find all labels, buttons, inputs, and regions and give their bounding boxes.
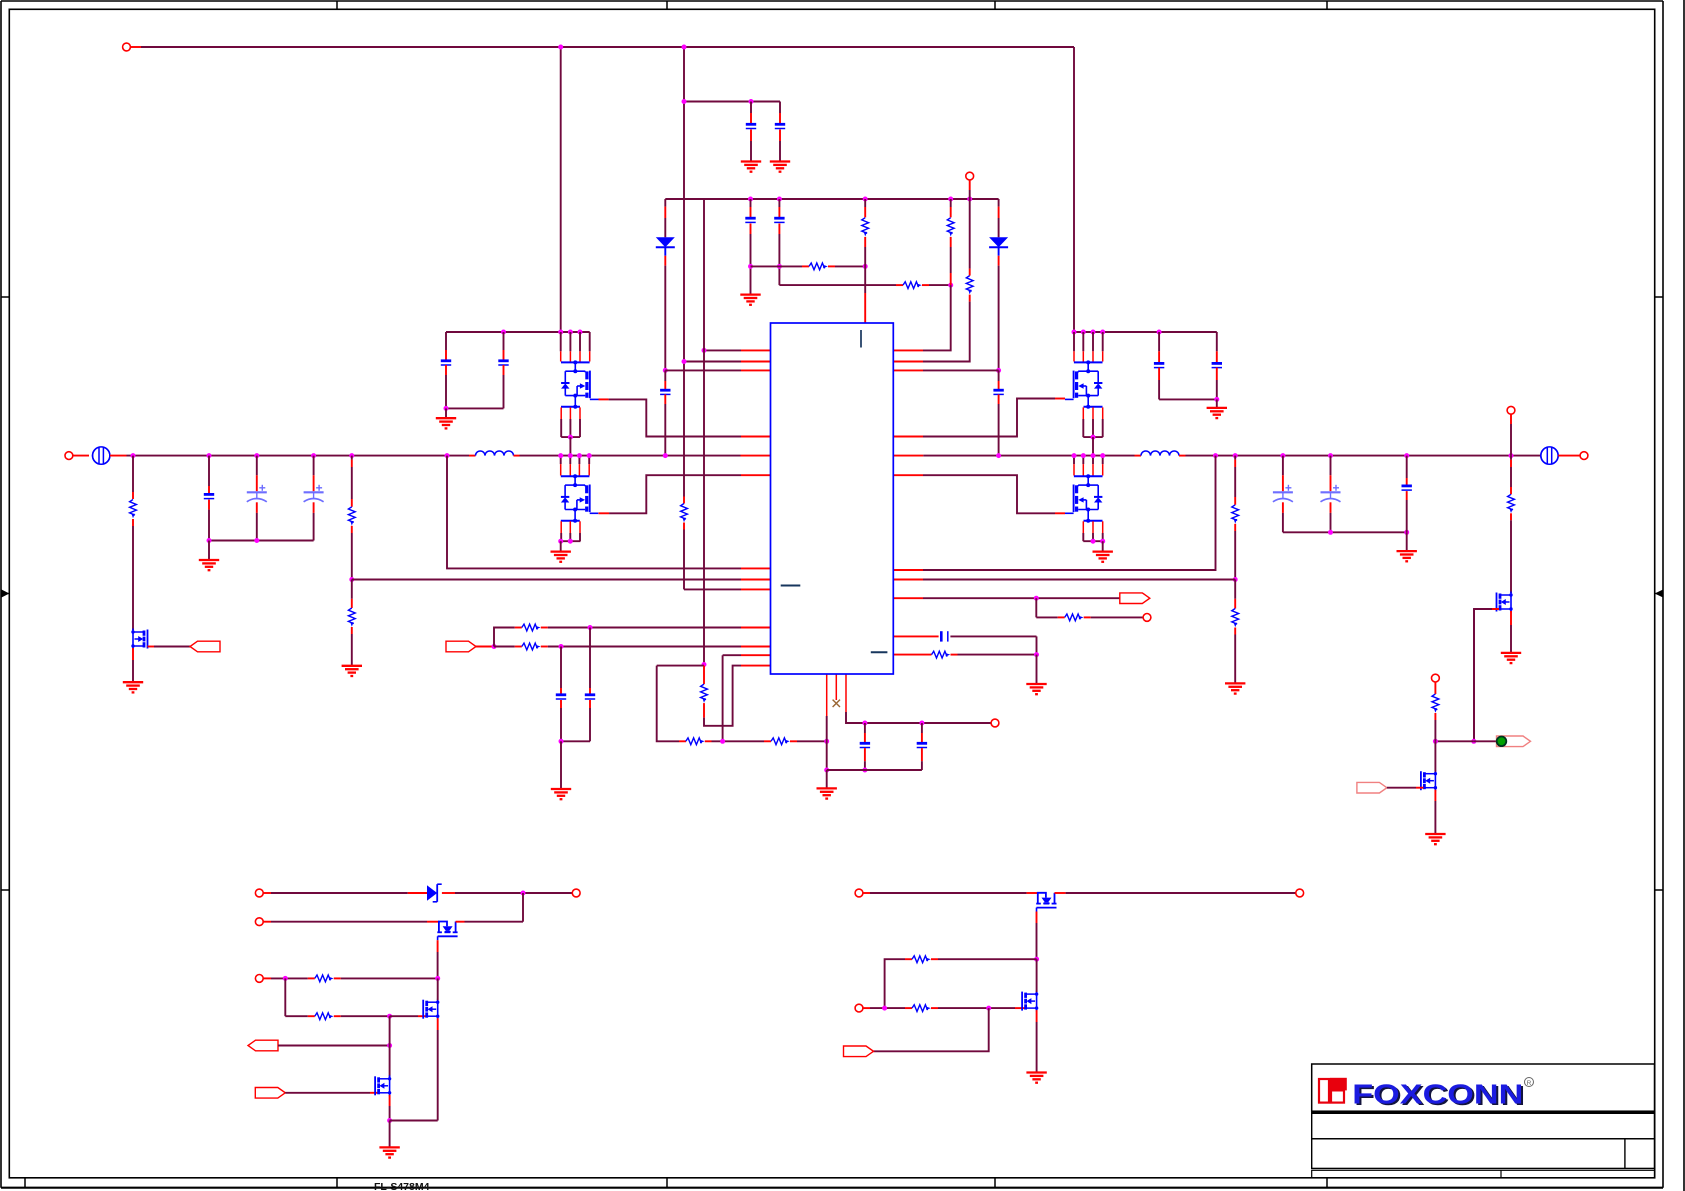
wire row1120 [390, 1120, 438, 1122]
pin stub [1216, 368, 1218, 380]
ground [1501, 653, 1521, 663]
junction [1433, 739, 1438, 744]
pin stub [951, 654, 958, 656]
pin stub [334, 1015, 341, 1017]
wire [494, 646, 515, 648]
FET drain pin stub [560, 464, 562, 475]
terminal circle [65, 452, 73, 460]
wire [589, 708, 591, 741]
FET source pin [579, 419, 581, 437]
pin stub [703, 703, 705, 718]
terminal VIN [123, 43, 131, 51]
pin stub [1510, 414, 1512, 424]
IC pin stub [893, 654, 931, 656]
resistor R_x950 [947, 218, 954, 237]
pin stub [1234, 599, 1236, 609]
junction [862, 721, 867, 726]
FET source pin [560, 419, 562, 437]
junction [1091, 435, 1096, 440]
wire [1330, 456, 1332, 476]
FET source pin stub [1102, 407, 1104, 419]
FET drain pin [578, 456, 580, 465]
wire row723 [865, 722, 991, 724]
junction [587, 453, 592, 458]
wire [132, 456, 134, 492]
pin stub [263, 892, 271, 894]
pin stub [790, 740, 797, 742]
wire [998, 218, 1000, 237]
svg-text:FL-S478M4: FL-S478M4 [374, 1181, 430, 1191]
wire [351, 456, 353, 460]
wire [351, 533, 353, 580]
resistor R_x1235a [1232, 505, 1239, 524]
IC pin stub [893, 349, 923, 351]
junction [882, 1006, 887, 1011]
terminal circle [1432, 674, 1440, 682]
FET source pin [560, 533, 562, 541]
junction [577, 453, 582, 458]
ground [436, 418, 456, 428]
border mid arrows [2, 590, 1664, 598]
mosfet Q2 low-left [561, 474, 599, 522]
wire [445, 375, 447, 408]
wire [864, 761, 866, 770]
junction [311, 453, 316, 458]
junction [558, 453, 563, 458]
pin stub [149, 648, 151, 650]
wire vert x1074 [1073, 47, 1075, 332]
pin stub [334, 977, 341, 979]
resistor R_p3 [1065, 614, 1084, 621]
wire row399 R [1159, 398, 1217, 400]
FET source pin stub [1092, 521, 1094, 533]
junction [1091, 330, 1096, 335]
resistor R_en2 [522, 643, 541, 650]
wire [271, 977, 308, 979]
pin stub [664, 394, 666, 404]
wire [938, 1007, 1015, 1009]
wire row741 L [561, 740, 590, 742]
IC pin stub [893, 474, 923, 476]
wire [885, 959, 905, 1008]
wire row579 R [923, 579, 1235, 581]
pin stub [437, 940, 439, 952]
ground [551, 552, 571, 562]
wire [1234, 531, 1236, 580]
zener D3 [427, 884, 442, 902]
pin stub [130, 46, 141, 48]
capacitor C_bs4 [1212, 363, 1222, 367]
wire x950 to IC pin [923, 285, 951, 350]
ground [1026, 1073, 1046, 1083]
mosfet Q6 [1497, 592, 1513, 613]
wire [1035, 598, 1037, 617]
wire [1282, 513, 1284, 532]
wire row540 [209, 540, 314, 542]
diode D2 [989, 237, 1008, 247]
junction [1404, 530, 1409, 535]
pin stub [132, 492, 134, 499]
wire [664, 404, 666, 456]
pin stub [1510, 611, 1512, 625]
junction [568, 539, 573, 544]
pin stub [1084, 616, 1091, 618]
junction [1509, 453, 1514, 458]
wire row598 [923, 597, 1121, 599]
capacitor C_a1 [746, 124, 756, 128]
junction [435, 976, 440, 981]
pin stub [828, 265, 835, 267]
FET source pin [569, 533, 571, 541]
junction [349, 453, 354, 458]
inductor L2 [1141, 451, 1179, 456]
gnd stem [750, 266, 752, 294]
IC pin stub [741, 579, 771, 581]
pin stub [541, 627, 548, 629]
wire [271, 892, 408, 894]
pin stub [445, 350, 447, 360]
wire [256, 456, 258, 476]
wire [1510, 520, 1512, 593]
wire fb jog [704, 666, 741, 726]
gnd stem [389, 1121, 391, 1148]
wire [1158, 380, 1160, 399]
pin stub [256, 475, 258, 491]
pin stub [998, 199, 1000, 207]
junction [387, 1043, 392, 1048]
resistor R_bm1 [912, 956, 931, 963]
IC U1 body [771, 323, 894, 674]
pin stub [389, 1095, 391, 1106]
wire row408 [446, 407, 504, 409]
wire row199 [665, 198, 998, 200]
wire vert x722 [722, 655, 724, 741]
pin stub [1234, 524, 1236, 531]
FET source pin stub [560, 521, 562, 533]
resistor R_bm2 [912, 1005, 931, 1012]
terminal circle [1507, 406, 1515, 414]
pin stub [514, 455, 520, 457]
capacitor C_comp [941, 631, 948, 641]
pin stub [750, 130, 752, 142]
junction [702, 662, 707, 667]
junction [682, 45, 687, 50]
wire [864, 247, 866, 293]
port P3 [1120, 593, 1150, 604]
ground [817, 788, 837, 798]
pin stub [664, 370, 666, 381]
wire [522, 893, 524, 922]
FET drain pin stub [1082, 351, 1084, 361]
FET drain pin [569, 456, 571, 465]
ground [740, 295, 760, 305]
wire vert x684 upper [683, 47, 685, 497]
ground [379, 1147, 399, 1157]
FET drain pin [1092, 332, 1094, 351]
junction [986, 1006, 991, 1011]
pin stub [703, 666, 705, 685]
terminal circle [255, 889, 263, 897]
pin stub [1282, 475, 1284, 491]
pin stub [1330, 502, 1332, 513]
cap stub [750, 102, 752, 114]
wire row770 [827, 769, 922, 771]
junction [578, 330, 583, 335]
port P4 [248, 1040, 278, 1051]
pin stub [469, 455, 476, 457]
pin stub [442, 892, 455, 894]
wire Q4 gate [923, 475, 1055, 513]
diode D1 [656, 237, 675, 247]
pin stub [750, 199, 752, 207]
IC top pin stub [864, 293, 866, 323]
port P2 [446, 641, 476, 652]
junction [824, 739, 829, 744]
capacitor C_out3 [1402, 486, 1412, 490]
pin stub [1434, 790, 1436, 801]
pin stub [263, 921, 271, 923]
IC pin stub [741, 369, 771, 371]
pin stub [921, 733, 923, 744]
pin stub [779, 113, 781, 126]
wire [665, 369, 741, 371]
gnd stem [1102, 541, 1104, 551]
wire [998, 266, 1000, 371]
FET source pin stub [579, 407, 581, 419]
IC pin stub [893, 361, 923, 363]
ferrite bead FB1 [93, 447, 110, 464]
wire [870, 1007, 905, 1009]
pin stub [1055, 512, 1065, 514]
IC pin stub [893, 579, 923, 581]
port P8 [1357, 782, 1387, 793]
wire x656 down [657, 666, 679, 742]
ground [123, 682, 143, 692]
pin stub [1510, 460, 1512, 467]
pin stub [445, 365, 447, 375]
mosfet Q11 [1022, 991, 1038, 1012]
FET drain pin stub [1092, 351, 1094, 361]
junction [283, 976, 288, 981]
capacitor C_b2 [774, 218, 784, 222]
wire [465, 921, 524, 923]
wire [1234, 467, 1236, 497]
pin stub [679, 740, 686, 742]
terminal circle [855, 889, 863, 897]
FET source pin [1102, 533, 1104, 541]
FET source bus [1083, 436, 1102, 438]
wire [351, 634, 353, 666]
wire [704, 349, 741, 351]
pin stub [863, 892, 870, 894]
FET source pin [579, 533, 581, 541]
wire [950, 635, 1036, 637]
junction [824, 768, 829, 773]
pin stub [263, 977, 271, 979]
resistor R_x684 [681, 504, 688, 523]
IC pin stub [893, 369, 923, 371]
FET drain pin stub [589, 351, 591, 361]
pin stub [427, 921, 439, 923]
wire row332 R [1074, 331, 1217, 333]
wire [154, 646, 190, 648]
ground [1225, 683, 1245, 693]
cap stub [1216, 332, 1218, 351]
cap stub [445, 332, 447, 350]
diode lead [664, 247, 666, 255]
port P6 [844, 1046, 874, 1057]
FET drain pin stub [1073, 351, 1075, 361]
junction [663, 368, 668, 373]
pin stub [541, 646, 548, 648]
resistor R_x351a [348, 507, 355, 526]
gnd stem [445, 408, 447, 418]
FET drain pin stub [569, 351, 571, 361]
FET drain pin stub [1102, 351, 1104, 361]
pin stub [351, 526, 353, 533]
FET drain pin stub [1073, 464, 1075, 475]
capacitor C_sn1 [860, 743, 870, 747]
junction [748, 264, 753, 269]
pin stub [256, 502, 258, 513]
pin stub [922, 284, 929, 286]
FET source pin [1092, 419, 1094, 437]
pin stub [208, 486, 210, 495]
IC pin stub [741, 474, 771, 476]
wire [351, 467, 353, 499]
resistor R_x133 [130, 500, 137, 519]
terminal circle [1143, 614, 1151, 622]
IC pin stub [741, 567, 771, 569]
FET drain pin [589, 332, 591, 351]
junction [919, 721, 924, 726]
pin stub [778, 224, 780, 235]
junction [444, 406, 449, 411]
junction [1214, 397, 1219, 402]
junction [1100, 453, 1105, 458]
junction [207, 453, 212, 458]
pin stub [969, 180, 971, 190]
pin stub [1416, 787, 1423, 789]
pin stub [308, 1015, 315, 1017]
svg-text:R: R [1527, 1080, 1532, 1087]
mosfet Q4 low-right [1065, 474, 1103, 522]
wire rail left [127, 455, 470, 457]
polarized capacitor C_in@313.6 [304, 485, 324, 502]
pin stub [589, 700, 591, 708]
junction [1404, 453, 1409, 458]
pin stub [864, 733, 866, 744]
mosfet Q10 [1036, 893, 1056, 912]
wire [958, 654, 1037, 656]
pin stub [969, 295, 971, 302]
pin stub [764, 740, 771, 742]
wire [1036, 923, 1038, 959]
junction [1072, 453, 1077, 458]
wire [1406, 456, 1408, 478]
wire [1387, 787, 1416, 789]
wire rail left2 [520, 455, 741, 457]
FET drain pin [1082, 332, 1084, 351]
ferrite bead FB2 [1541, 447, 1558, 464]
pin stub [1434, 713, 1436, 720]
junction [682, 99, 687, 104]
pin stub [864, 723, 866, 733]
junction [521, 891, 526, 896]
pin stub [110, 455, 127, 457]
wire [998, 404, 1000, 456]
wire [1036, 959, 1038, 992]
mosfet Q8 [423, 999, 439, 1020]
wire [921, 761, 923, 770]
pin stub [778, 207, 780, 219]
junction [1100, 330, 1105, 335]
svg-text:FOXCONN: FOXCONN [1352, 1078, 1523, 1109]
wire row655 [723, 654, 741, 656]
junction [387, 1118, 392, 1123]
pin stub [950, 207, 952, 217]
pin stub [1510, 487, 1512, 494]
FET source pin stub [1082, 521, 1084, 533]
junction [254, 538, 259, 543]
wire [132, 660, 134, 682]
wire row101 [684, 101, 780, 103]
gnd stem long [560, 741, 562, 789]
resistor R_br1 [1432, 694, 1439, 713]
pin stub [750, 113, 752, 126]
pin stub [921, 748, 923, 761]
pin stub [950, 237, 952, 247]
pin stub [208, 500, 210, 510]
FET source pin stub [1102, 521, 1104, 533]
IC bottom pin stub [826, 674, 828, 716]
IC pin stub [893, 455, 923, 457]
IC bottom pin NC stub [835, 674, 837, 700]
IC pin stub [893, 436, 923, 438]
resistor R_c2 [771, 738, 790, 745]
IC pin stub [893, 597, 923, 599]
junction [588, 625, 593, 630]
wire row285 [779, 284, 896, 286]
terminal circle [255, 918, 263, 926]
wire [1234, 456, 1236, 460]
junction [863, 197, 868, 202]
wire row332 L [446, 331, 590, 333]
FET drain pin [1092, 456, 1094, 465]
wire [1510, 625, 1512, 653]
pin stub [308, 977, 315, 979]
wire row589 L [684, 588, 741, 590]
resistor R_row266 [809, 263, 828, 270]
cap stub [503, 332, 505, 350]
FET source pin stub [560, 407, 562, 419]
FET source pin stub [1092, 407, 1094, 419]
pin stub [1558, 455, 1580, 457]
wire [208, 456, 210, 486]
junction [948, 197, 953, 202]
pin stub [351, 627, 353, 634]
pin stub [560, 700, 562, 708]
junction [131, 453, 136, 458]
wire [437, 978, 439, 1000]
wire [455, 892, 572, 894]
pin stub [998, 381, 1000, 390]
capacitor C_ss1 [556, 695, 566, 699]
junction [349, 577, 354, 582]
ground [741, 162, 761, 172]
wire [969, 190, 971, 269]
wire [1092, 437, 1094, 456]
